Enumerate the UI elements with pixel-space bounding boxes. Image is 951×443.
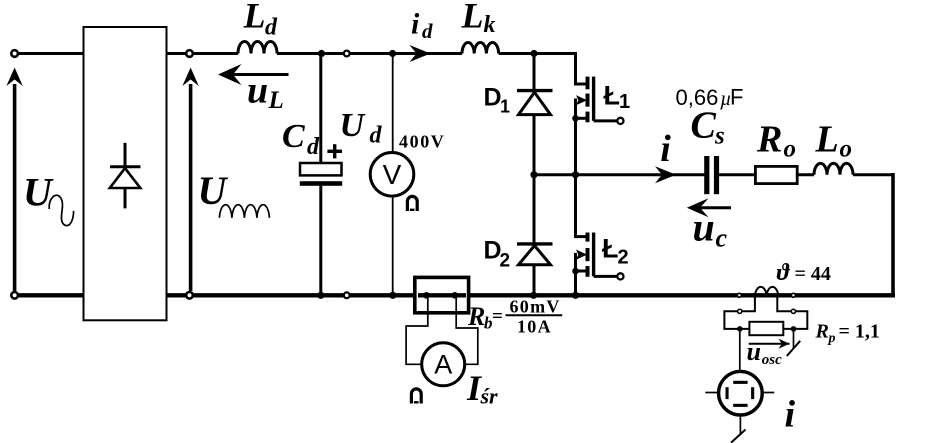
junction voltmeter top rail (389, 50, 396, 57)
wire shunt to ammeter right (456, 298, 478, 364)
svg-text:L: L (268, 87, 284, 114)
transformer secondary terminal left (738, 309, 742, 313)
svg-text:V: V (383, 159, 402, 190)
diode inside rectifier box (110, 143, 141, 209)
svg-text:2: 2 (618, 246, 629, 268)
terminal rectifier output top (186, 50, 193, 57)
junction Cd top rail (318, 50, 325, 57)
transistor L1 (MOSFET) (574, 52, 624, 175)
wire through shunt (418, 293, 466, 297)
svg-text:= 44: = 44 (795, 263, 831, 285)
svg-text:i: i (411, 8, 420, 41)
terminal rectifier output bottom (186, 292, 193, 299)
junction Rp left (737, 326, 743, 332)
wire middle rail: Ro to Lo (797, 173, 814, 176)
plus sign for Cd (327, 144, 342, 158)
svg-text:u: u (693, 205, 715, 250)
svg-text:d: d (307, 134, 320, 160)
svg-text:C: C (282, 118, 305, 155)
wire middle rail: D-junction to Cs (534, 173, 705, 176)
moving-coil symbol under ammeter (411, 389, 421, 404)
svg-text:L: L (461, 0, 484, 36)
transformer primary terminal right (791, 293, 795, 297)
svg-text:k: k (484, 12, 496, 38)
svg-text:osc: osc (762, 352, 782, 368)
wire oscilloscope left lead (705, 392, 718, 394)
arrow uL (218, 64, 289, 85)
voltmeter V circle (370, 153, 414, 197)
junction L1 source-body (572, 115, 579, 122)
junction voltmeter bottom rail (389, 292, 396, 299)
oscilloscope circle (719, 371, 763, 415)
svg-text:i: i (785, 393, 796, 435)
junction L2 bottom rail (572, 292, 579, 299)
svg-text:R: R (815, 321, 829, 343)
probe slash right (787, 341, 800, 356)
svg-text:ϑ: ϑ (777, 260, 791, 286)
inductor Lo (814, 163, 853, 174)
junction Rp right (791, 326, 797, 332)
svg-text:L: L (815, 118, 839, 160)
svg-text:d: d (265, 15, 278, 41)
ripple symbol (219, 205, 269, 218)
svg-text:2: 2 (500, 251, 511, 272)
wire middle rail: Lo to right corner (853, 173, 895, 176)
svg-text:i: i (660, 128, 671, 170)
moving-coil symbol under voltmeter (407, 196, 417, 211)
svg-text:U: U (340, 107, 367, 144)
wire Rp right stub (793, 329, 795, 349)
wire transformer secondary to Rp right (777, 295, 807, 329)
arrow uc (687, 198, 731, 217)
svg-text:=: = (492, 306, 503, 327)
wire voltmeter upper lead (392, 54, 394, 153)
junction D1 top rail (530, 50, 537, 57)
svg-text:c: c (716, 224, 728, 253)
wire top rail: box to Ld (167, 52, 239, 55)
sine symbol (49, 195, 73, 225)
voltage arrow U ripple (rectifier output) (182, 68, 198, 292)
shunt resistor Rb box (415, 277, 469, 312)
oscilloscope plates (726, 381, 755, 407)
terminal input bottom (11, 292, 18, 299)
wire top rail: Ld to Lk (277, 52, 462, 55)
svg-text:d: d (422, 19, 433, 43)
terminal top rail mid (344, 51, 350, 57)
resistor Rp (749, 322, 783, 335)
wire top rail left: terminal to box (16, 52, 84, 55)
resistor Ro (755, 166, 797, 183)
inductor Ld (238, 42, 277, 54)
shunt terminal dot right (452, 292, 459, 299)
wire shunt to ammeter left (406, 298, 428, 364)
wire Cd upper lead (319, 54, 322, 165)
junction L2 source-body (572, 268, 579, 275)
wire bottom rail: box to right edge (167, 293, 896, 297)
svg-text:C: C (691, 105, 717, 147)
svg-text:D: D (484, 84, 502, 112)
junction Cd bottom rail (317, 292, 324, 299)
inductor Lk (462, 42, 499, 53)
svg-text:L: L (243, 0, 266, 36)
svg-text:R: R (756, 118, 782, 160)
svg-text:60mV: 60mV (510, 296, 561, 316)
wire Cd lower lead (319, 186, 322, 295)
wire voltmeter lower lead (392, 196, 394, 295)
rectifier block box (84, 27, 167, 320)
svg-text:u: u (247, 70, 268, 112)
svg-text:d: d (370, 123, 383, 149)
svg-text:1: 1 (619, 91, 630, 113)
svg-text:= 1,1: = 1,1 (839, 321, 880, 343)
terminal input top (11, 50, 18, 57)
capacitor Cs plates (704, 156, 709, 194)
svg-text:1: 1 (500, 97, 510, 117)
transistor L2 (MOSFET) (574, 175, 624, 296)
arrow i on middle rail (655, 166, 676, 183)
current transformer secondary winding (755, 287, 778, 296)
svg-text:10A: 10A (517, 317, 552, 337)
svg-text:Ł: Ł (602, 234, 619, 264)
svg-text:u: u (747, 337, 761, 366)
svg-text:śr: śr (480, 384, 499, 409)
junction L1-L2 middle rail (572, 171, 579, 178)
wire middle rail: Cs to Ro (719, 173, 755, 176)
wire oscilloscope bottom lead (739, 415, 741, 435)
diode D1 (517, 54, 553, 175)
svg-text:p: p (828, 331, 836, 346)
wire right edge vertical (891, 173, 895, 295)
arrow id on top rail (410, 45, 431, 62)
wire transformer secondary to Rp left (724, 295, 755, 329)
wire bottom rail left: terminal to box (16, 293, 84, 297)
svg-text:o: o (784, 135, 797, 162)
svg-text:F: F (730, 85, 743, 110)
voltage arrow U (left input) (6, 68, 22, 292)
shunt terminal dot left (423, 292, 430, 299)
diode D2 (517, 175, 553, 296)
svg-text:A: A (434, 350, 452, 380)
terminal bottom rail mid (344, 292, 350, 298)
wire top rail: Lk to corner (499, 52, 577, 55)
junction D2 bottom rail (530, 292, 537, 299)
svg-text:400V: 400V (399, 132, 445, 152)
svg-text:s: s (714, 123, 725, 150)
capacitor Cd (300, 163, 342, 186)
ammeter A circle (422, 343, 465, 386)
arrow u_osc (749, 339, 790, 349)
svg-text:Ł: Ł (604, 81, 621, 111)
svg-text:R: R (467, 302, 485, 331)
junction D1-D2 middle rail (530, 171, 537, 178)
transformer secondary terminal right (791, 309, 795, 313)
wire Rp to oscilloscope (739, 329, 741, 372)
svg-text:o: o (840, 135, 853, 162)
wire oscilloscope right lead (762, 392, 774, 394)
probe slash bottom (731, 430, 746, 443)
transformer primary terminal left (737, 293, 741, 297)
